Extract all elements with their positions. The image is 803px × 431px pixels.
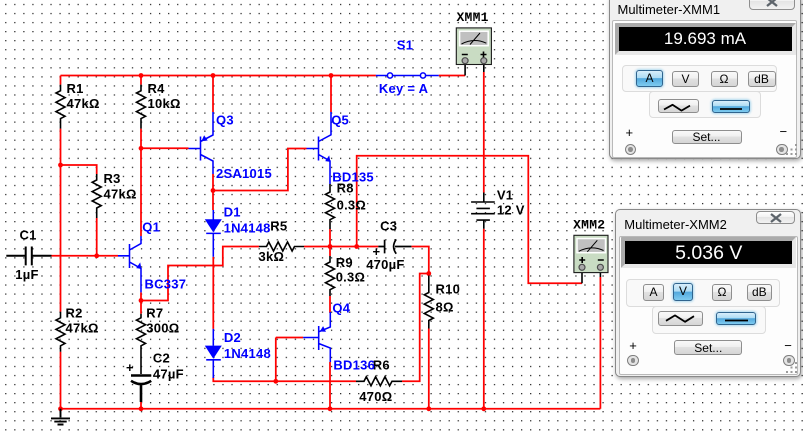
svg-text:0.3Ω: 0.3Ω [336, 270, 366, 285]
node V1 bottom rail [481, 406, 486, 411]
switch S1 [376, 75, 439, 77]
svg-text:BC337: BC337 [145, 277, 187, 292]
capacitor C2 [131, 376, 151, 403]
transistor Q4 BD136 (PNP) [303, 312, 330, 362]
ground [51, 409, 70, 425]
svg-text:Q4: Q4 [332, 301, 350, 316]
node C3 / R10 / R6 [426, 271, 431, 276]
wire Q3 collector to node [212, 174, 214, 191]
svg-text:R4: R4 [148, 81, 166, 96]
svg-text:12 V: 12 V [497, 203, 525, 218]
svg-text:3kΩ: 3kΩ [259, 249, 285, 264]
svg-text:C1: C1 [20, 228, 37, 243]
svg-text:S1: S1 [397, 38, 413, 53]
wire Q4 collector to ground rail [329, 362, 331, 409]
resistor R3 [92, 174, 101, 218]
wire node to D1 [212, 191, 214, 211]
svg-text:D2: D2 [224, 330, 241, 345]
pin XMM1 minus [464, 61, 466, 76]
transistor Q3 2SA1015 (PNP) [189, 112, 214, 174]
svg-text:47µF: 47µF [153, 367, 184, 382]
wire Q3 base [141, 147, 189, 149]
svg-text:R9: R9 [336, 255, 353, 270]
svg-text:10kΩ: 10kΩ [148, 96, 181, 111]
wire R3 branch [61, 165, 97, 256]
svg-text:Q1: Q1 [142, 220, 160, 235]
wire R4 column [140, 76, 142, 149]
wire XMM1 plus to V1 [483, 72, 485, 193]
wire top rail [61, 75, 376, 77]
svg-text:+: + [373, 244, 381, 259]
svg-text:0.3Ω: 0.3Ω [337, 198, 367, 213]
svg-text:R2: R2 [66, 306, 83, 321]
resistor R9 [326, 256, 335, 296]
wire feedback R5 path [141, 247, 330, 301]
node XMM2 branch [354, 244, 359, 249]
svg-text:1µF: 1µF [15, 267, 38, 282]
wire R8 to output node [329, 229, 331, 247]
resistor R4 [137, 85, 146, 129]
resistor R7 [137, 314, 146, 374]
wire C1 to Q1 base [52, 255, 119, 257]
node Q4 collector rail [328, 406, 333, 411]
node D2 / Q4 base [273, 379, 278, 384]
svg-text:XMM2: XMM2 [573, 218, 605, 233]
wire Q1 emitter to node [140, 292, 142, 300]
svg-text:R1: R1 [67, 81, 84, 96]
transistor Q1 BC337 [118, 236, 141, 292]
wire Q4 base from node [276, 338, 303, 382]
pin XMM2 minus [599, 267, 601, 277]
svg-text:Key = A: Key = A [379, 81, 429, 96]
node R4 bottom / Q3 base [139, 146, 144, 151]
diode D2 1N4148 [205, 329, 222, 378]
node R3 branch [58, 163, 63, 168]
svg-text:D1: D1 [224, 205, 241, 220]
node R4 top [139, 73, 144, 78]
svg-text:+: + [126, 360, 134, 375]
wire bottom ground rail [61, 408, 601, 410]
svg-text:XMM1: XMM1 [457, 10, 489, 25]
instrument icon XMM1 [456, 28, 491, 65]
pin XMM2 plus [581, 267, 583, 283]
svg-text:300Ω: 300Ω [146, 321, 179, 336]
wire V1 to ground rail [483, 229, 485, 409]
svg-text:R7: R7 [146, 306, 163, 321]
wire left rail segments [60, 76, 62, 409]
wire Q1 collector [140, 148, 142, 236]
wire output node to C3 [330, 247, 429, 274]
node R3 bottom / Q1 base [94, 253, 99, 258]
svg-text:Q5: Q5 [331, 113, 349, 128]
wire Q3 emitter from rail [212, 76, 214, 113]
pin XMM1 plus [483, 61, 485, 72]
resistor R6 (horizontal) [356, 377, 402, 386]
svg-text:R3: R3 [104, 171, 121, 186]
svg-text:47kΩ: 47kΩ [66, 321, 99, 336]
wire D1 to D2 [212, 257, 214, 329]
diode D1 1N4148 [205, 210, 222, 257]
node Q3 emitter rail [211, 73, 216, 78]
Multimeter-XMM1 panel window [609, 0, 801, 159]
node Q3 collector / D1 [211, 188, 216, 193]
resistor R5 (horizontal) [259, 242, 304, 251]
node C2 bottom [139, 406, 144, 411]
svg-text:47kΩ: 47kΩ [104, 187, 137, 202]
resistor R10 [424, 276, 433, 329]
svg-text:R5: R5 [270, 219, 287, 234]
wire XMM2 minus to rail [599, 277, 601, 409]
wire switch to XMM1 [439, 75, 465, 77]
capacitor C1 [6, 247, 51, 266]
node Q5 collector rail [329, 73, 334, 78]
instrument icon XMM2 [574, 235, 608, 272]
resistor R8 [326, 184, 335, 229]
wire Q5 base [213, 149, 307, 191]
node output R8 R9 [328, 244, 333, 249]
wire R6 right to output node [402, 274, 429, 382]
svg-text:1N4148: 1N4148 [224, 346, 271, 361]
svg-text:Q3: Q3 [216, 113, 234, 128]
wire D2 to Q4 base node [213, 377, 356, 381]
wire R10 bottom [428, 329, 430, 409]
svg-text:C3: C3 [380, 219, 397, 234]
Multimeter-XMM2 panel window [615, 209, 801, 377]
node Q1 emitter / R7 [139, 298, 144, 303]
svg-text:1N4148: 1N4148 [224, 221, 271, 236]
svg-text:470Ω: 470Ω [359, 389, 392, 404]
resistor R2 [56, 312, 65, 352]
wire R9 leads [329, 247, 331, 314]
svg-text:V1: V1 [497, 188, 513, 203]
wire Q5 collector from rail [330, 76, 332, 113]
svg-text:BD135: BD135 [332, 170, 374, 185]
capacitor C3 [378, 239, 411, 253]
svg-text:8Ω: 8Ω [436, 300, 454, 315]
svg-text:C2: C2 [153, 351, 170, 366]
svg-text:R10: R10 [436, 282, 461, 297]
wire R7 leads [140, 301, 142, 409]
node R10 bottom rail [426, 406, 431, 411]
node ground left [58, 406, 63, 411]
svg-text:470µF: 470µF [366, 257, 404, 272]
svg-text:2SA1015: 2SA1015 [216, 166, 272, 181]
transistor Q5 BD135 (NPN) [307, 112, 332, 184]
resistor R1 [56, 85, 65, 129]
svg-text:47kΩ: 47kΩ [67, 96, 100, 111]
svg-text:BD136: BD136 [333, 358, 375, 373]
svg-text:R6: R6 [373, 358, 390, 373]
battery V1 [471, 193, 495, 229]
wire XMM2 sense from output [357, 156, 582, 283]
